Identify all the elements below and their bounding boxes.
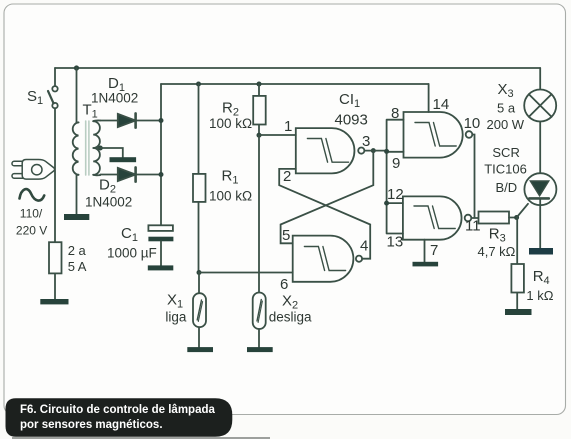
diode D1 1N4002 — [91, 75, 161, 128]
label CI1 4093 — [335, 91, 368, 129]
ground X2 — [247, 347, 273, 352]
svg-text:110/: 110/ — [20, 207, 43, 221]
svg-text:5: 5 — [282, 227, 290, 244]
svg-text:2 a: 2 a — [68, 243, 87, 258]
wire pin6 — [199, 272, 293, 274]
wire top rail — [55, 67, 540, 69]
svg-text:1N4002: 1N4002 — [91, 91, 138, 106]
resistor R2 100k — [209, 84, 266, 135]
transformer T1 — [73, 102, 100, 215]
switch S1 — [27, 68, 58, 108]
gate CI1c pins 8 9 10 — [391, 96, 480, 172]
capacitor C1 1000uF — [107, 225, 173, 265]
wire S1 to fuse column — [54, 108, 56, 242]
lamp X3 — [487, 81, 557, 132]
ground mains — [40, 299, 68, 304]
svg-text:6: 6 — [280, 276, 288, 293]
wire Vcc rail — [161, 83, 429, 85]
AC source symbol — [20, 189, 45, 201]
plug XP1 mains — [12, 160, 55, 180]
resistor R1 100k — [193, 84, 252, 273]
wire SCR gate lead — [517, 204, 528, 218]
svg-text:desliga: desliga — [269, 310, 312, 325]
wire lamp to SCR — [539, 122, 541, 174]
wire R2 to pin1 — [259, 134, 296, 136]
svg-text:1 kΩ: 1 kΩ — [526, 288, 553, 303]
ground C1 — [148, 265, 174, 270]
svg-text:12: 12 — [387, 186, 404, 203]
wire cross out4 to pin2 — [279, 169, 370, 259]
junction R2 top — [257, 82, 262, 87]
ground T1 primary — [64, 214, 89, 220]
svg-text:100 kΩ: 100 kΩ — [209, 189, 252, 204]
junction out3 — [371, 148, 376, 153]
svg-text:1000 µF: 1000 µF — [107, 246, 157, 261]
sensor X1 liga — [165, 273, 206, 348]
sensor X2 desliga — [253, 293, 312, 348]
svg-text:220 V: 220 V — [16, 224, 47, 238]
svg-text:9: 9 — [392, 155, 400, 172]
wire out3 to tie — [364, 150, 386, 152]
ground T1 center tap — [110, 157, 137, 162]
wire pin7 ground lead — [424, 240, 426, 262]
svg-text:1: 1 — [284, 118, 292, 135]
svg-text:4,7 kΩ: 4,7 kΩ — [478, 244, 516, 259]
junction R1 bottom — [197, 270, 202, 275]
svg-text:1N4002: 1N4002 — [85, 195, 132, 210]
caption F6 — [6, 398, 271, 439]
svg-text:4093: 4093 — [335, 112, 368, 129]
svg-text:liga: liga — [165, 310, 187, 325]
diode D2 1N4002 — [85, 167, 161, 209]
junction D1 cathode — [159, 118, 164, 123]
wire X2 column — [258, 135, 260, 292]
svg-text:200 W: 200 W — [487, 117, 525, 132]
gate CI1a pins 1 2 3 — [259, 118, 370, 185]
junction R2 bottom — [257, 133, 262, 138]
wire out10 to out11 — [471, 135, 478, 219]
gate CI1b pins 5 6 4 — [280, 227, 368, 293]
junction tie pin12 — [384, 201, 389, 206]
junction top rail to T1 — [74, 65, 79, 70]
SCR TIC106 — [484, 145, 556, 248]
resistor R3 4.7k — [478, 212, 517, 260]
fuse F1 — [49, 242, 87, 299]
junction R1 top — [196, 82, 201, 87]
svg-text:8: 8 — [391, 105, 399, 122]
wire T1 primary top — [76, 68, 78, 122]
ground SCR cathode — [529, 248, 553, 255]
svg-text:SCR: SCR — [492, 145, 519, 160]
wire center tap — [93, 148, 123, 157]
wire input tie — [387, 120, 404, 234]
label mains voltage — [16, 207, 47, 238]
svg-text:5 a: 5 a — [497, 101, 516, 116]
wire cross out3 to pin5 — [281, 151, 374, 244]
wire rectified output — [160, 84, 162, 225]
svg-text:por sensores magnéticos.: por sensores magnéticos. — [20, 419, 163, 431]
junction tie pin9 — [384, 149, 389, 154]
ground X1 — [187, 347, 213, 352]
wire pin14 supply — [428, 84, 430, 112]
svg-text:100 kΩ: 100 kΩ — [209, 116, 252, 131]
svg-text:13: 13 — [387, 234, 404, 251]
svg-text:10: 10 — [464, 115, 481, 132]
wire lamp feed — [539, 68, 541, 90]
svg-text:7: 7 — [430, 242, 438, 259]
svg-text:F6. Circuito de controle de lâ: F6. Circuito de controle de lâmpada — [20, 404, 216, 416]
junction T1 center tap — [98, 146, 103, 151]
svg-text:2: 2 — [283, 168, 291, 185]
svg-text:5 A: 5 A — [68, 259, 87, 274]
ground pin7 — [413, 262, 439, 267]
svg-text:TIC106: TIC106 — [484, 162, 527, 177]
junction D2 cathode — [159, 172, 164, 177]
ground R4 — [505, 309, 532, 315]
svg-text:3: 3 — [362, 133, 370, 150]
resistor R4 1k — [511, 218, 553, 310]
svg-text:B/D: B/D — [496, 180, 518, 195]
junction R3 out — [514, 215, 519, 220]
svg-text:14: 14 — [433, 96, 450, 113]
gate CI1d pins 12 13 11 — [387, 186, 481, 259]
svg-text:4: 4 — [360, 238, 368, 255]
